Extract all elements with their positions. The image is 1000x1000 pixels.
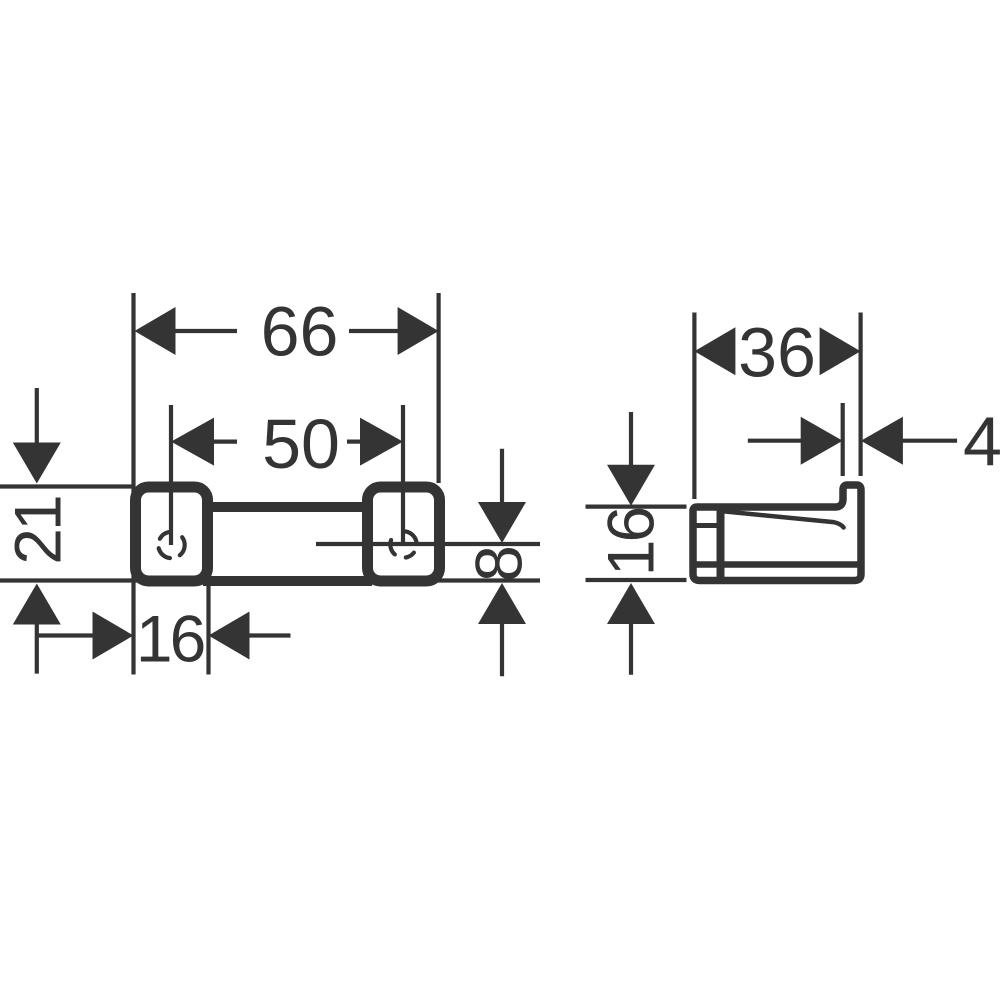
svg-text:36: 36 (738, 314, 816, 392)
svg-text:16: 16 (594, 509, 668, 577)
svg-text:50: 50 (262, 405, 340, 483)
svg-text:8: 8 (462, 545, 536, 582)
svg-text:66: 66 (261, 293, 339, 371)
svg-text:21: 21 (1, 497, 75, 565)
svg-text:4: 4 (963, 403, 1000, 481)
svg-text:16: 16 (136, 602, 204, 676)
